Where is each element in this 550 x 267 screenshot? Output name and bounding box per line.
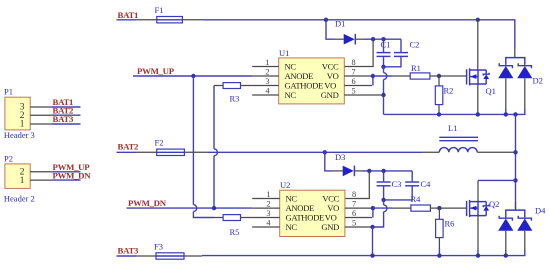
- svg-text:F2: F2: [155, 138, 164, 148]
- pin 5 U2: [345, 218, 371, 227]
- svg-text:D1: D1: [335, 19, 345, 29]
- pin 4 U1: [252, 86, 279, 95]
- wire Q1 gate lead: [439, 75, 466, 77]
- svg-text:D4: D4: [535, 206, 546, 216]
- svg-text:VO: VO: [327, 203, 339, 213]
- junction Q1 source: [476, 112, 480, 116]
- wire BAT2 to L1: [207, 151, 421, 153]
- svg-text:7: 7: [352, 67, 356, 76]
- resistor R3: [214, 83, 252, 104]
- pin 2 U1: [252, 67, 279, 76]
- node BAT1: [117, 10, 139, 20]
- inductor L1: [422, 123, 515, 153]
- junction PWM_UP branch: [191, 74, 195, 78]
- junction R6 bottom: [437, 253, 441, 257]
- diode D3: [325, 152, 362, 176]
- svg-text:BAT3: BAT3: [53, 114, 75, 124]
- junction D2 left anode: [504, 112, 508, 116]
- svg-text:5: 5: [352, 218, 356, 227]
- svg-text:BAT3: BAT3: [118, 245, 140, 255]
- wire BAT3 rail: [202, 250, 525, 256]
- junction pin5 U2: [370, 225, 374, 229]
- wire pin8 U2 link: [345, 171, 369, 199]
- svg-text:VCC: VCC: [322, 61, 339, 71]
- junction C3-C4 ground join: [381, 198, 385, 202]
- wire net PWM_UP at P2: [51, 162, 90, 172]
- resistor R1: [392, 63, 439, 79]
- svg-text:3: 3: [266, 209, 270, 218]
- svg-text:BAT2: BAT2: [118, 142, 140, 152]
- wire pin6 to pin7 tie U2: [372, 208, 374, 217]
- fuse F2: [136, 138, 207, 156]
- svg-text:1: 1: [265, 58, 269, 67]
- junction PWM_DN to R3 drop: [212, 206, 216, 210]
- wire D4 feed: [515, 202, 517, 210]
- svg-text:3: 3: [265, 77, 269, 86]
- svg-text:P1: P1: [4, 87, 13, 97]
- junction at Q1 drain: [476, 18, 480, 22]
- svg-text:R3: R3: [230, 94, 240, 104]
- svg-text:L1: L1: [448, 123, 457, 133]
- wire D3 cathode to C4: [362, 170, 412, 172]
- pin 7 U1: [344, 67, 372, 76]
- svg-text:6: 6: [352, 77, 356, 86]
- wire Q2 source to BAT3: [477, 250, 479, 256]
- wire pin7 to R4: [373, 207, 392, 209]
- wire U2 ground drop with hop over pin7: [373, 200, 388, 227]
- svg-text:7: 7: [352, 199, 356, 208]
- svg-text:D2: D2: [533, 76, 543, 86]
- transistor Q1: [467, 68, 496, 96]
- resistor R4: [392, 194, 439, 211]
- svg-text:2: 2: [266, 199, 270, 208]
- svg-text:R6: R6: [445, 219, 455, 229]
- svg-text:VO: VO: [325, 212, 337, 222]
- junction pin8 U1: [371, 37, 375, 41]
- wire Q1 source: [477, 84, 479, 114]
- fuse F1: [136, 5, 204, 23]
- pin 5 U1: [344, 86, 382, 95]
- svg-text:P2: P2: [4, 153, 13, 163]
- pin 1 U1: [252, 58, 279, 67]
- wire U2 ground to BAT3: [372, 227, 374, 256]
- svg-text:R2: R2: [444, 86, 454, 96]
- pin 2 of P1: [20, 110, 52, 121]
- wire D1 cathode to C2: [364, 38, 401, 40]
- resistor R5: [214, 215, 252, 237]
- pin 3 U2: [252, 209, 280, 218]
- svg-text:NC: NC: [285, 61, 297, 71]
- svg-text:VCC: VCC: [322, 193, 339, 203]
- pin 3 of P1: [20, 102, 52, 113]
- junction pin8 U2: [367, 169, 371, 173]
- svg-text:U1: U1: [279, 48, 289, 58]
- junction rail to L1: [513, 112, 517, 116]
- resistor R2: [435, 76, 453, 114]
- pin 6 U2: [345, 209, 372, 218]
- capacitor C1: [377, 39, 391, 67]
- junction U2 gnd at BAT3: [370, 253, 374, 257]
- pin 6 U1: [344, 77, 372, 86]
- svg-text:R5: R5: [230, 227, 240, 237]
- svg-text:GND: GND: [321, 222, 339, 232]
- wire Q2 gate lead: [439, 207, 466, 209]
- svg-text:5: 5: [352, 86, 356, 95]
- svg-text:1: 1: [266, 190, 270, 199]
- svg-text:C2: C2: [410, 40, 420, 50]
- wire PWM_UP drop to R5 with hop over PWM_DN: [193, 76, 214, 218]
- svg-text:PWM_UP: PWM_UP: [137, 66, 175, 76]
- op-coupler U2: [280, 180, 345, 236]
- junction pin7 U1: [371, 74, 375, 78]
- svg-text:PWM_DN: PWM_DN: [128, 198, 167, 208]
- wire top rail BAT1: [204, 20, 515, 49]
- junction Q2 drain branch: [513, 178, 517, 182]
- svg-text:ANODE: ANODE: [286, 203, 315, 213]
- pin 1 U2: [252, 190, 280, 199]
- wire Q2 source: [477, 216, 479, 250]
- junction at D1 branch: [324, 18, 328, 22]
- wire switch node vertical: [515, 114, 517, 210]
- capacitor C2: [384, 39, 420, 67]
- wire U1 ground drop with hop over pin7: [384, 67, 387, 115]
- svg-text:Q2: Q2: [489, 199, 499, 209]
- svg-text:D3: D3: [335, 152, 345, 162]
- svg-text:8: 8: [352, 190, 356, 199]
- fuse F3: [136, 241, 202, 259]
- svg-text:VO: VO: [324, 80, 336, 90]
- junction pin7 U2: [371, 206, 375, 210]
- pin 1 of P2: [20, 175, 52, 186]
- junction C1-C2 ground join: [381, 65, 385, 69]
- svg-text:NC: NC: [285, 90, 297, 100]
- node PWM_DN: [127, 198, 253, 208]
- node PWM_UP: [133, 66, 252, 76]
- svg-text:C1: C1: [381, 40, 391, 50]
- junction L1 right: [513, 150, 517, 154]
- svg-text:NC: NC: [286, 193, 298, 203]
- svg-text:ANODE: ANODE: [285, 71, 314, 81]
- wire switch-node rail A: [384, 109, 525, 114]
- svg-text:8: 8: [352, 58, 356, 67]
- svg-text:VO: VO: [327, 71, 339, 81]
- node BAT3: [117, 245, 140, 256]
- svg-text:BAT1: BAT1: [118, 10, 139, 20]
- wire Q2 drain jog: [478, 180, 516, 201]
- wire net BAT3 at P1: [51, 114, 80, 124]
- header P1: [4, 87, 35, 141]
- junction R1-R2-gate: [437, 74, 441, 78]
- wire pin7 to R1: [373, 75, 392, 77]
- junction R4-R6-gate: [437, 206, 441, 210]
- wire Q1 drain: [477, 20, 479, 70]
- svg-text:1: 1: [20, 175, 25, 186]
- junction C1 top: [381, 37, 385, 41]
- junction D4 left anode: [504, 253, 508, 257]
- svg-text:Header 3: Header 3: [4, 130, 35, 140]
- transistor Q2: [467, 199, 500, 217]
- pin 7 U2: [345, 199, 372, 208]
- wire R3 drop to PWM_DN with hop over BAT2: [214, 86, 217, 209]
- svg-text:GATHODE: GATHODE: [286, 212, 325, 222]
- svg-text:6: 6: [352, 209, 356, 218]
- diode D1: [326, 19, 364, 45]
- svg-text:F1: F1: [155, 5, 164, 15]
- wire net PWM_DN at P2: [51, 170, 91, 180]
- svg-text:R4: R4: [411, 194, 422, 204]
- wire pin6 to pin7 tie: [372, 76, 374, 86]
- junction Q2 source at BAT3: [476, 253, 480, 257]
- svg-text:PWM_DN: PWM_DN: [53, 170, 92, 180]
- junction D3 branch: [323, 150, 327, 154]
- wire net BAT2 at P1: [51, 105, 80, 115]
- wire pin8 U1 link: [344, 39, 373, 66]
- resistor R6: [436, 208, 455, 256]
- svg-text:GND: GND: [321, 90, 339, 100]
- capacitor C4: [384, 171, 432, 200]
- svg-text:NC: NC: [286, 222, 298, 232]
- junction pin5 U1: [381, 93, 385, 97]
- svg-text:2: 2: [265, 67, 269, 76]
- junction C3 top: [381, 169, 385, 173]
- node BAT2: [117, 142, 140, 153]
- capacitor C3: [377, 171, 402, 200]
- svg-text:Header 2: Header 2: [4, 193, 35, 203]
- wire net BAT1 at P1: [51, 97, 80, 107]
- pin 3 U1: [252, 77, 279, 86]
- diode D2 dual schottky: [498, 58, 543, 110]
- pin 4 U2: [252, 218, 280, 227]
- svg-text:C3: C3: [392, 179, 402, 189]
- junction R2 bottom: [437, 112, 441, 116]
- svg-text:U2: U2: [280, 180, 290, 190]
- diode D4 dual schottky: [498, 206, 546, 252]
- svg-text:1: 1: [20, 119, 25, 130]
- svg-text:F3: F3: [154, 241, 163, 251]
- header P2: [4, 153, 35, 203]
- svg-text:R1: R1: [411, 63, 421, 73]
- pin 2 of P2: [20, 166, 52, 177]
- svg-text:Q1: Q1: [486, 86, 496, 96]
- wire D2 feed: [514, 49, 516, 58]
- pin 2 U2: [252, 199, 280, 208]
- pin 1 of P1: [20, 119, 52, 130]
- svg-text:C4: C4: [421, 179, 432, 189]
- svg-text:GATHODE: GATHODE: [285, 80, 324, 90]
- op-coupler U1: [279, 48, 345, 104]
